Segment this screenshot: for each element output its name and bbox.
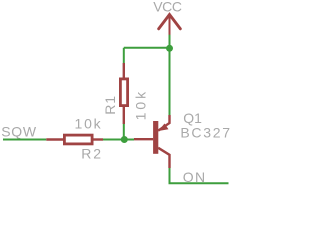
wire bottom horizontal to ON <box>169 182 229 184</box>
wire collector down <box>169 168 171 183</box>
transistor Q1 emitter (to VCC) <box>158 115 169 131</box>
svg-text:R2: R2 <box>81 145 103 161</box>
svg-text:10k: 10k <box>133 89 149 121</box>
wire top horizontal (R1 top to VCC) <box>124 47 170 49</box>
resistor R2 pin right <box>94 138 104 140</box>
junction dot at VCC node <box>166 45 173 52</box>
svg-text:R1: R1 <box>102 95 118 115</box>
svg-text:SQW: SQW <box>1 124 37 140</box>
resistor R2 pin left <box>46 138 63 140</box>
resistor R1 body <box>120 79 127 106</box>
svg-text:VCC: VCC <box>153 0 182 15</box>
wire R1 top vertical <box>123 48 125 63</box>
transistor Q1 base bar <box>153 121 158 154</box>
svg-text:BC327: BC327 <box>180 125 231 141</box>
svg-text:Q1: Q1 <box>183 110 202 126</box>
svg-text:ON: ON <box>183 169 207 185</box>
wire R1 bottom to base node <box>123 124 125 140</box>
wire R2 to base node <box>103 139 134 141</box>
wire VCC node down to Q1 emitter <box>169 48 171 115</box>
resistor R1 pin top <box>123 63 125 78</box>
supply symbol VCC (arrow) <box>159 15 181 35</box>
resistor R1 pin bottom <box>123 107 125 124</box>
transistor Q1 base pin <box>134 138 153 140</box>
junction dot at base node <box>121 136 128 143</box>
svg-text:10k: 10k <box>75 116 103 132</box>
wire VCC stem <box>169 35 171 48</box>
transistor Q1 collector <box>158 148 169 168</box>
resistor R2 body <box>64 135 92 144</box>
wire SQW to R2 <box>3 139 46 141</box>
transistor Q1 emitter arrow (PNP) <box>158 124 168 132</box>
